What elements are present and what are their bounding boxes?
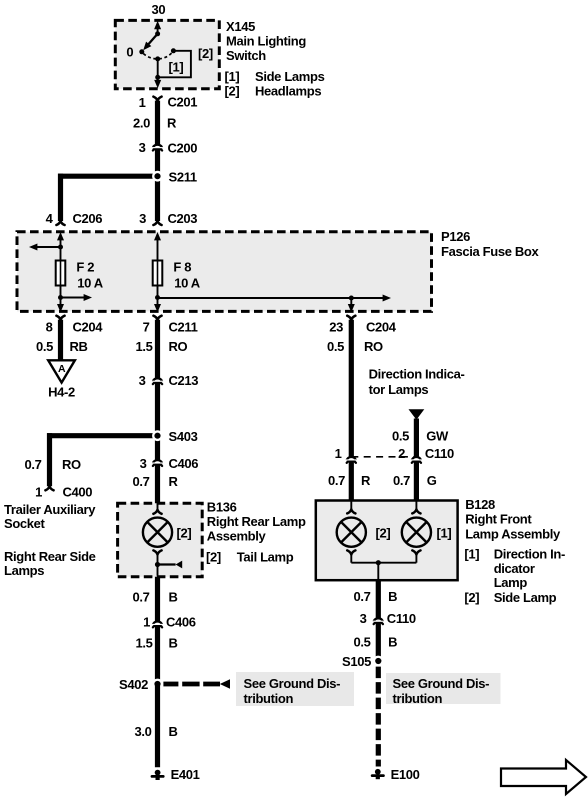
connector C110 label [425,446,454,461]
wire C204 to H4-2 [58,320,63,361]
svg-text:7: 7 [143,320,150,335]
svg-text:1.5: 1.5 [135,339,152,354]
lamp assembly box B128 outline [316,501,458,581]
svg-text:X145: X145 [226,19,255,34]
svg-text:Lamp Assembly: Lamp Assembly [465,526,561,541]
connector C201 label [168,95,198,110]
fuse F2 label [76,260,103,291]
X145 position 0 node [139,49,144,54]
svg-text:See Ground Dis-: See Ground Dis- [393,676,490,691]
svg-text:B: B [388,635,397,650]
fuse F8 label [173,260,200,291]
svg-text:S403: S403 [169,429,198,444]
svg-text:C110: C110 [425,446,454,461]
connector C406 pin 1 [152,622,163,628]
wire label 2.0 R [133,115,177,130]
svg-text:B128: B128 [465,497,495,512]
svg-text:Direction Indica-: Direction Indica- [369,366,465,381]
svg-text:F 8: F 8 [173,260,191,275]
wire B128 to S105 [376,580,381,661]
ground E401 label [171,767,200,782]
B128 label [2] internal [376,525,391,540]
svg-text:B: B [169,724,178,739]
X145 position 0 label [126,45,133,60]
svg-text:30: 30 [152,2,166,17]
wire label 0.7 R [132,474,178,489]
B136 label [2] internal [177,525,192,540]
splice S211 label [169,169,197,184]
connector C203 label [168,211,198,226]
svg-text:See Ground Dis-: See Ground Dis- [244,676,341,691]
component name line 1 [226,33,306,48]
wire C211 down [155,320,160,504]
wire S105 to E100 dashed [376,667,381,767]
svg-text:[2]: [2] [464,590,479,605]
wire S402 to E401 [155,684,160,767]
connector C204 label [73,320,104,335]
B128 internal join [351,563,416,580]
svg-text:10 A: 10 A [77,276,104,291]
B128 legend [1] [464,547,565,562]
switch box X145 outline [115,20,219,88]
X145 position 2 link [158,51,191,78]
svg-text:1.5: 1.5 [135,636,152,651]
wire C200 to C203 [155,176,160,221]
svg-text:1: 1 [335,446,342,461]
svg-text:0.7: 0.7 [132,474,149,489]
wire label 0.5 RB [36,339,88,354]
tail lamp bulb [143,518,172,547]
svg-text:C110: C110 [387,611,416,626]
off-page label H4-2 [48,385,75,400]
wire label 0.7 G [393,473,437,488]
svg-text:[2]: [2] [225,83,240,98]
wire label 0.7 RO [24,457,81,472]
X145 output node [155,75,160,80]
splice S402 dashed link [163,679,230,688]
svg-text:1: 1 [143,614,150,629]
component name line 2 [226,48,266,63]
svg-text:3: 3 [139,373,146,388]
connector C211 label [169,320,198,335]
splice S105 label [342,654,371,669]
splice S211 [152,171,163,182]
svg-text:Side Lamp: Side Lamp [494,590,557,605]
svg-text:S402: S402 [119,677,148,692]
internal feed line F8 [154,232,161,312]
fuse F2 [56,261,66,286]
svg-text:RO: RO [62,457,81,472]
svg-text:Direction In-: Direction In- [494,547,565,562]
svg-text:Right Rear Lamp: Right Rear Lamp [207,514,306,529]
svg-text:C211: C211 [169,320,198,335]
ground E401 [152,770,163,780]
tail lamp bottom pin [153,550,161,575]
svg-text:3: 3 [140,456,147,471]
svg-text:Lamp: Lamp [494,575,528,590]
internal node F2 top [58,245,63,250]
svg-text:C200: C200 [168,141,198,156]
connector C110 pin 2 [411,457,422,463]
svg-text:Right Rear Side: Right Rear Side [4,549,96,564]
svg-text:R: R [169,474,179,489]
svg-text:4: 4 [46,211,54,226]
svg-text:2.0: 2.0 [133,115,150,130]
svg-text:Switch: Switch [226,48,266,63]
B136 junction node [155,562,160,567]
component label X145 [226,19,255,34]
svg-text:1: 1 [139,95,146,110]
B136 internal link horn [158,561,183,569]
internal feed line F2 [57,232,64,312]
connector C213 [152,378,163,384]
svg-text:[1]: [1] [464,547,479,562]
direction indicator lamps label [369,366,465,397]
fuse box label [441,229,539,259]
svg-text:S211: S211 [169,169,197,184]
svg-text:P126: P126 [441,229,470,244]
svg-text:Main Lighting: Main Lighting [226,33,306,48]
pin 3 label [139,140,146,155]
svg-text:C204: C204 [366,320,397,335]
B128 legend line 3 [494,575,528,590]
svg-text:Side Lamps: Side Lamps [255,69,325,84]
ground E100 label [391,767,420,782]
internal branch arrow right short [61,294,93,301]
svg-text:23: 23 [329,320,343,335]
svg-text:0.5: 0.5 [327,339,344,354]
wire GW down [414,419,419,501]
svg-text:B: B [169,636,178,651]
connector C204 half pin 23 [347,316,355,320]
pin 1 label C110 [335,446,342,461]
direction indicator bulb [402,518,431,547]
svg-text:C406: C406 [169,456,199,471]
side lamp bottom pin [347,550,355,562]
svg-text:Trailer Auxiliary: Trailer Auxiliary [4,502,96,517]
trailer socket label [4,502,96,531]
svg-text:Assembly: Assembly [207,528,267,543]
connector C406b label [166,614,196,629]
wire label 1.5 RO [135,339,187,354]
B136 legend [206,549,294,564]
fuse box P126 outline [17,232,432,312]
svg-text:C400: C400 [63,485,93,500]
terminal 30 label [152,2,166,17]
B128 junction node [376,560,381,565]
wire B136 to S402 [155,577,160,684]
internal branch pin 23 [348,298,355,312]
connector C200 label [168,141,198,156]
X145 output arrow [154,77,161,88]
svg-text:C201: C201 [168,95,198,110]
svg-text:Fascia Fuse Box: Fascia Fuse Box [441,244,539,259]
svg-text:Tail Lamp: Tail Lamp [237,549,294,564]
connector C400 label [63,485,93,500]
X145 switch lever [141,34,158,53]
lamp assembly box B136 outline [118,503,203,577]
svg-text:tribution: tribution [244,691,294,706]
svg-text:Right Front: Right Front [465,512,532,527]
svg-text:0.7: 0.7 [353,589,370,604]
svg-text:[2]: [2] [198,46,213,61]
component label B136 [207,500,306,544]
splice S403 [152,430,163,441]
legend [2] [225,83,322,98]
connector C213 label [169,373,199,388]
svg-text:Headlamps: Headlamps [255,83,321,98]
pin 7 label [143,320,150,335]
pin 3 label C213 [139,373,146,388]
B136 entry pin [153,503,161,514]
svg-text:[1]: [1] [169,60,184,75]
svg-text:0.7: 0.7 [132,590,149,605]
X145 travel arc [143,52,172,59]
pin 1 label [139,95,146,110]
B128 legend [2] [464,590,556,605]
svg-text:2: 2 [398,446,405,461]
source arrow GW [409,409,425,420]
connector C200 [152,145,163,151]
B128 entry pin G [412,501,420,514]
svg-text:[2]: [2] [376,525,391,540]
svg-text:H4-2: H4-2 [48,385,75,400]
svg-text:C213: C213 [169,373,199,388]
svg-text:B: B [388,589,397,604]
svg-text:C406: C406 [166,614,196,629]
pin 4 label [46,211,54,226]
pin 3 label C110 [360,611,367,626]
wire label 3.0 B [134,724,177,739]
internal node pin 23 [349,296,354,301]
connector C406 [152,460,163,466]
X145 label [2] [198,46,213,61]
wire label 0.7 R right [328,473,371,488]
wire C204-23 down [349,320,354,501]
wire X145 output [155,101,160,145]
svg-text:C204: C204 [73,320,104,335]
svg-text:[1]: [1] [225,69,240,84]
splice S211 branch wire [58,174,158,221]
wire to C200 [155,144,160,176]
svg-text:0.5: 0.5 [353,635,370,650]
pin 8 label [46,320,53,335]
splice S105 [373,656,384,667]
splice S403 branch wire [47,433,158,486]
svg-text:3: 3 [139,140,146,155]
off-page connector A [48,360,75,382]
internal node F8 bottom [155,295,160,300]
svg-text:RB: RB [70,339,88,354]
connector C206 label [73,211,103,226]
X145 position 1 node [155,56,160,61]
svg-text:G: G [427,473,437,488]
svg-text:Lamps: Lamps [4,563,44,578]
connector C211 half pin 7 [153,316,161,320]
X145 terminal 30 feed arrow [154,21,161,34]
svg-text:C206: C206 [73,211,103,226]
splice S403 label [169,429,198,444]
svg-text:E100: E100 [391,767,420,782]
fuse F8 [153,261,163,286]
connector C206 half [56,221,64,225]
B128 entry pin R [347,501,355,514]
see ground distribution left [236,672,354,706]
pin 23 label [329,320,343,335]
svg-text:3.0: 3.0 [134,724,151,739]
pin 1 label C400 [35,485,42,500]
X145 wiper pivot node [155,31,160,36]
svg-text:R: R [361,473,371,488]
svg-text:Socket: Socket [4,516,46,531]
internal branch arrow right long [158,295,392,302]
svg-text:A: A [58,363,66,375]
svg-text:3: 3 [139,211,146,226]
connector C110 pin 3 [373,618,384,624]
svg-text:0.7: 0.7 [24,457,41,472]
svg-text:0.7: 0.7 [393,473,410,488]
svg-text:B136: B136 [207,500,237,515]
B128 legend line 2 [494,561,535,576]
connector C203 half [153,221,161,225]
svg-text:[2]: [2] [206,549,221,564]
svg-text:S105: S105 [342,654,371,669]
svg-text:GW: GW [426,429,449,444]
svg-text:RO: RO [169,339,188,354]
pin 3 label C406 [140,456,147,471]
svg-text:1: 1 [35,485,42,500]
direction-of-flow arrow [501,760,586,794]
see ground distribution right [386,673,501,706]
svg-text:tribution: tribution [393,691,443,706]
internal branch arrow left [29,244,61,251]
svg-text:0.7: 0.7 [328,473,345,488]
svg-text:0: 0 [126,45,133,60]
svg-text:[1]: [1] [437,525,452,540]
wire label 1.5 B [135,636,177,651]
svg-text:8: 8 [46,320,53,335]
svg-text:B: B [169,590,178,605]
svg-text:F 2: F 2 [76,260,94,275]
svg-text:dicator: dicator [494,561,535,576]
connector C204 half pin 8 [56,316,64,320]
indicator bottom pin [412,550,420,562]
side lamp bulb [337,518,366,547]
pin 3 label C203 [139,211,146,226]
splice S402 label [119,677,148,692]
svg-text:0.5: 0.5 [392,429,409,444]
connector C110-3 label [387,611,416,626]
svg-text:10 A: 10 A [174,276,201,291]
legend [1] [225,69,325,84]
connector C110 pin 1 [346,457,357,463]
svg-text:0.5: 0.5 [36,339,53,354]
svg-text:E401: E401 [171,767,200,782]
wire label 0.5 GW [392,429,449,444]
pin 1 label C406b [143,614,150,629]
svg-text:3: 3 [360,611,367,626]
svg-text:RO: RO [364,339,383,354]
internal node F2 bottom [58,295,63,300]
svg-text:R: R [167,115,177,130]
wire label 0.7 B [132,590,177,605]
svg-text:[2]: [2] [177,525,192,540]
B128 label [1] internal [437,525,452,540]
ground E100 [372,769,383,779]
connector C400 half [45,486,53,490]
X145 position 1 link [157,59,159,77]
pin 2 label C110 [398,446,405,461]
X145 label [1] [169,60,184,75]
wire label 0.7 B right [353,589,397,604]
right rear side lamps label [4,549,96,578]
svg-text:tor Lamps: tor Lamps [369,382,429,397]
X145 position 2 node [171,48,176,53]
component label B128 [465,497,561,541]
connector C204 pin23 label [366,320,397,335]
connector C406 label [169,456,199,471]
connector C201 half [153,97,161,101]
connector C110 link dashed [351,456,416,458]
wire label 0.5 RO [327,339,383,354]
wire label 0.5 B [353,635,397,650]
svg-text:C203: C203 [168,211,198,226]
splice S402 [152,679,163,690]
